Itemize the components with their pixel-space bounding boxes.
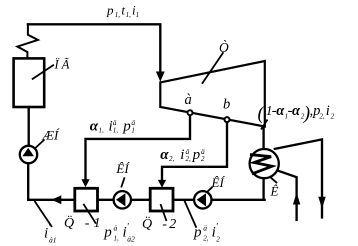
svg-text:1: 1	[94, 216, 101, 231]
wire extraction a	[86, 116, 191, 181]
svg-text:1,: 1,	[99, 126, 105, 134]
leader through P-2 label gap	[161, 204, 167, 221]
wire feed pump down to corner and right to P-1	[28, 163, 73, 199]
svg-text:α: α	[160, 147, 169, 163]
svg-text:ÆÍ: ÆÍ	[42, 128, 61, 143]
leader to pump KN1 label	[121, 177, 124, 187]
arrowhead into turbine	[156, 72, 165, 82]
svg-text:α: α	[90, 118, 99, 134]
arrowhead cooling water up	[293, 193, 300, 205]
svg-text:2: 2	[169, 217, 176, 232]
label extraction 1: alpha1 i1 p1	[90, 118, 136, 134]
label heater P-2	[142, 215, 176, 232]
wire cooling water outlet diagonal and drop	[275, 139, 322, 217]
pump KN1 triangle left	[116, 193, 125, 206]
svg-text:p: p	[106, 2, 114, 17]
svg-text:ä: ä	[114, 224, 118, 233]
arrowhead into heater P-2	[158, 180, 166, 188]
label feedwater enthalpy i'v1	[44, 222, 57, 245]
svg-text:p: p	[122, 118, 131, 134]
svg-text:1,: 1,	[114, 235, 120, 243]
svg-text:ÊÍ: ÊÍ	[115, 161, 130, 176]
node a extraction	[188, 110, 193, 115]
svg-text:2: 2	[201, 155, 205, 163]
wire break squiggle above boiler	[17, 25, 38, 57]
svg-text:1,: 1,	[115, 11, 121, 19]
wire cooling water inlet diagonal	[278, 171, 297, 220]
turbine trapezoid	[160, 61, 264, 127]
wire heater P-2 to pump KN2	[174, 199, 193, 201]
svg-text:Ò: Ò	[219, 40, 229, 55]
svg-text:1: 1	[136, 11, 140, 19]
label drain state p1 i'v2	[103, 222, 135, 244]
svg-text:b: b	[223, 97, 230, 113]
node b extraction	[225, 117, 230, 122]
heater P-2 box	[150, 188, 173, 211]
wire pump KN1 to heater P-2	[132, 199, 149, 201]
arrowhead cooling water down	[318, 197, 325, 209]
leader to feedwater enthalpy label bottom left	[35, 201, 53, 227]
heater P-1 box	[75, 188, 98, 211]
wire pump KN2 to condenser drop	[212, 199, 265, 201]
svg-text:Q̈: Q̈	[142, 215, 152, 232]
label extraction 2: alpha2 i2 p2	[160, 147, 205, 163]
label exhaust state (1-a1-a2),p2,i2	[258, 103, 335, 124]
svg-text:1,: 1,	[113, 127, 119, 135]
boiler PG rectangle	[14, 58, 45, 107]
svg-text:2,: 2,	[319, 113, 325, 121]
svg-text:1,: 1,	[126, 11, 132, 19]
pump PN circle	[20, 146, 37, 163]
arrowhead left on condensate line	[52, 195, 62, 204]
svg-text:i: i	[326, 103, 330, 119]
condenser internal zigzag	[251, 155, 272, 174]
leader to pump KN2 label	[207, 187, 212, 192]
svg-text:i: i	[180, 147, 184, 163]
leader to turbine label T	[202, 52, 223, 83]
svg-text:-: -	[85, 216, 90, 231]
svg-text:Ï Ã: Ï Ã	[54, 57, 70, 72]
arrowhead into heater P-1	[81, 179, 89, 187]
pump KN1 circle	[114, 191, 131, 208]
svg-text:â2: â2	[127, 235, 135, 244]
pump KN2 circle	[194, 191, 211, 208]
svg-text:1: 1	[131, 127, 135, 135]
svg-text:-: -	[162, 217, 167, 232]
svg-text:2,: 2,	[186, 155, 192, 163]
wire extraction b	[162, 122, 227, 181]
label steam parameters top p1,t1,i1	[106, 2, 139, 19]
leader to boiler label PG	[32, 65, 54, 80]
leader to condenser label K	[269, 176, 277, 183]
leader to exhaust state label	[261, 120, 268, 130]
svg-text:2: 2	[216, 236, 220, 244]
wire turbine exhaust to condenser	[262, 127, 264, 149]
svg-text:2,: 2,	[169, 155, 175, 163]
wire top main steam line	[28, 24, 160, 73]
pump KN2 triangle left	[197, 193, 206, 206]
svg-text:Ê: Ê	[270, 184, 279, 199]
svg-text:Q̈: Q̈	[64, 213, 74, 230]
pump PN triangle up	[22, 148, 34, 156]
wire condenser to bottom line	[262, 178, 264, 199]
svg-text:p: p	[103, 225, 112, 241]
condenser circle K	[250, 149, 279, 178]
label heater P-1	[64, 213, 101, 230]
label condensate state p2 i2'	[193, 222, 220, 244]
svg-text:2,: 2,	[203, 235, 209, 243]
leader to drain state label p2 i2	[184, 200, 196, 228]
wire heater P-1 to pump KN1	[99, 199, 113, 201]
leader to feed pump label PN	[35, 140, 45, 149]
leader through P-1 label gap	[83, 204, 96, 224]
wire boiler to feed pump	[28, 108, 30, 145]
svg-text:ä: ä	[203, 224, 207, 233]
svg-text:â1: â1	[49, 236, 57, 245]
svg-text:p: p	[193, 225, 202, 241]
svg-text:à: à	[185, 92, 192, 108]
svg-text:ÊÍ: ÊÍ	[211, 175, 226, 190]
svg-text:2: 2	[331, 113, 335, 121]
svg-text:p: p	[192, 147, 201, 163]
svg-text:α: α	[292, 103, 301, 119]
